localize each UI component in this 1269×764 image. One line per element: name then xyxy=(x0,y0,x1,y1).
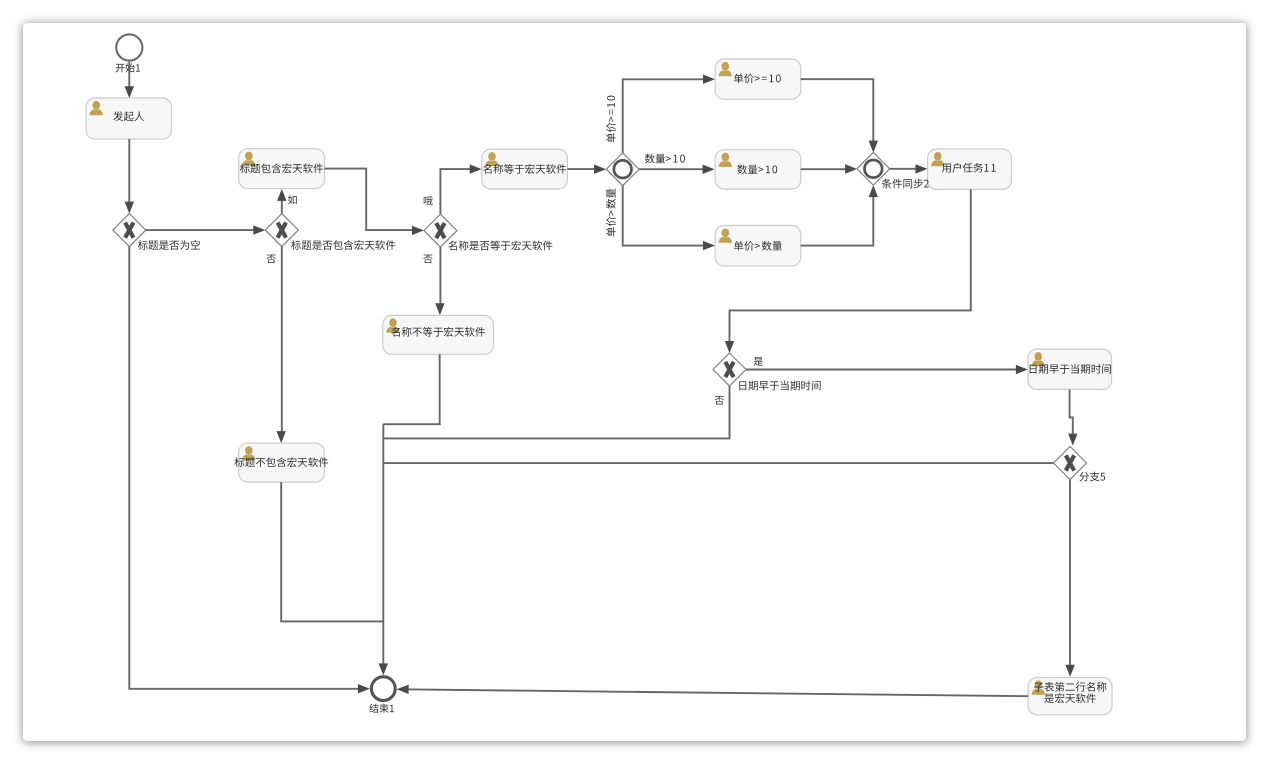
wire yes to 名称等于宏天软件 xyxy=(424,164,482,214)
wire 发起人 to gateway 标题是否为空 xyxy=(125,139,134,214)
wire yes to task 日期早于当期时间 xyxy=(746,357,1028,374)
label 条件同步2 xyxy=(882,179,929,189)
task 日期早于当期时间 xyxy=(1028,349,1112,389)
gateway 标题是否为空 xyxy=(113,214,200,250)
gateway 日期早于当期时间 xyxy=(713,353,821,390)
wire 单价>数量 to join xyxy=(801,185,878,246)
inclusive gateway split xyxy=(606,153,639,186)
wire 标题是否为空 to 标题是否包含宏天软件 xyxy=(146,225,265,234)
wire 标题包含宏天软件 to gateway 名称是否等于宏天软件 xyxy=(325,169,424,236)
wire 用户任务11 to gateway 日期早于当期时间 xyxy=(725,189,971,353)
wire 名称等于宏天软件 to split gateway xyxy=(567,165,606,174)
inclusive gateway join xyxy=(857,152,890,185)
wire 子表第二行名称是宏天软件 to 结束1 xyxy=(397,685,1029,697)
wire join to 用户任务11 xyxy=(890,164,928,173)
wire split to 数量>10 xyxy=(639,154,714,174)
wire split to 单价>=10 xyxy=(606,75,715,153)
wire 名称不等于宏天软件 to 结束1 xyxy=(379,354,440,675)
task 子表第二行名称是宏天软件 xyxy=(1028,678,1112,715)
wire 分支5 left to end line xyxy=(383,462,1053,464)
wire 数量>10 to join xyxy=(801,164,857,173)
wire start to 发起人 xyxy=(125,61,134,99)
task 单价>=10 xyxy=(715,59,801,99)
task 发起人 xyxy=(86,98,172,139)
task 单价>数量 xyxy=(715,226,801,267)
gateway 名称是否等于宏天软件 xyxy=(424,214,553,250)
wire no down-left to end line xyxy=(383,386,729,438)
wire no to 名称不等于宏天软件 xyxy=(423,247,444,315)
wire 分支5 to 子表第二行名称是宏天软件 xyxy=(1065,480,1074,677)
task 标题不包含宏天软件 xyxy=(234,443,328,482)
gateway 分支5 xyxy=(1054,447,1106,482)
wire split to 单价>数量 xyxy=(606,186,715,251)
wire 单价>=10 to join xyxy=(801,79,878,152)
task 名称等于宏天软件 xyxy=(482,149,568,189)
task 名称不等于宏天软件 xyxy=(383,315,494,354)
wire 标题不包含宏天软件 to end line xyxy=(281,482,383,621)
task 标题包含宏天软件 xyxy=(239,149,325,189)
wire no to 标题不包含宏天软件 xyxy=(267,247,286,444)
wire task 日期早于当期时间 to 分支5 xyxy=(1068,390,1077,446)
task 用户任务11 xyxy=(928,149,1012,189)
gateway 标题是否包含宏天软件 xyxy=(265,214,395,250)
wire yes to 标题包含宏天软件 xyxy=(277,189,297,214)
start event 开始1 xyxy=(116,34,143,72)
end event 结束1 xyxy=(369,677,395,713)
task 数量>10 xyxy=(715,150,801,189)
wire 标题是否为空 to 结束1 xyxy=(129,247,370,694)
